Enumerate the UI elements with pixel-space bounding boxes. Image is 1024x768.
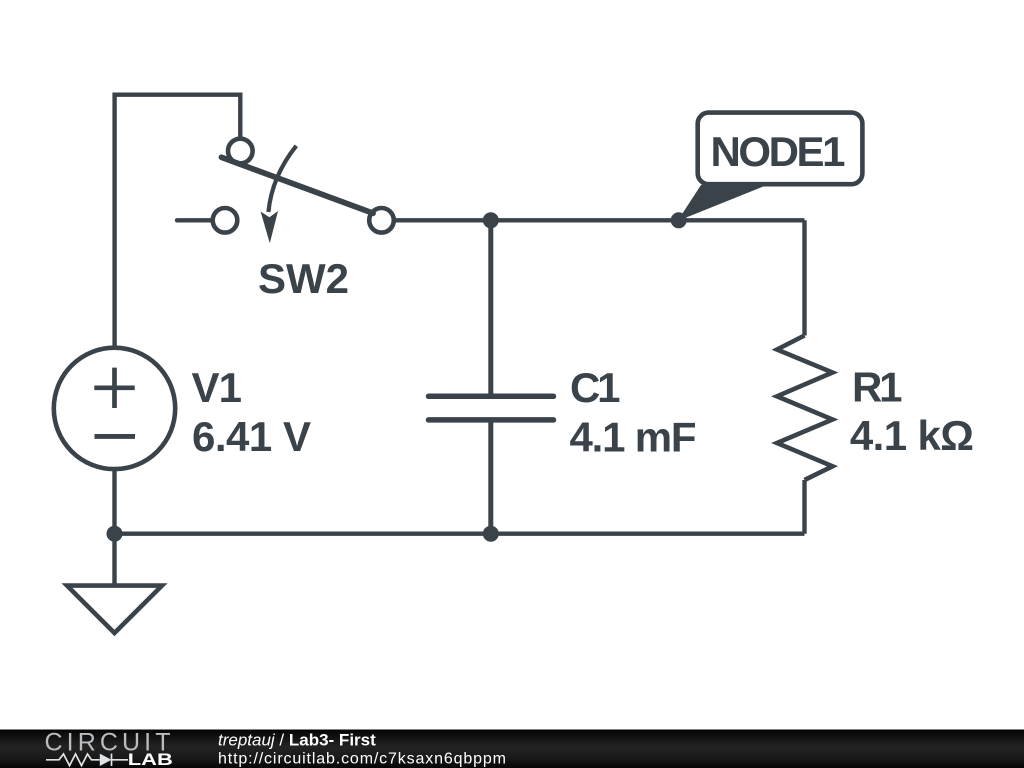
switch SW2 pole terminal bbox=[213, 208, 238, 233]
switch SW2 right terminal bbox=[369, 208, 394, 233]
svg-text:4.1 kΩ: 4.1 kΩ bbox=[850, 412, 974, 459]
svg-text:http://circuitlab.com/c7ksaxn6: http://circuitlab.com/c7ksaxn6qbppm bbox=[218, 750, 506, 767]
switch SW2 blade bbox=[222, 157, 374, 213]
svg-text:treptauj / Lab3- First: treptauj / Lab3- First bbox=[218, 730, 376, 749]
svg-text:C1: C1 bbox=[570, 364, 621, 411]
svg-text:4.1 mF: 4.1 mF bbox=[570, 413, 697, 460]
svg-text:V1: V1 bbox=[192, 364, 243, 411]
NODE1 callout box bbox=[698, 113, 863, 185]
capacitor C1 bottom plate bbox=[429, 417, 554, 423]
junction dot at C1 bottom bbox=[483, 526, 499, 542]
voltage source V1 circle bbox=[54, 348, 175, 469]
junction dot at C1 top bbox=[483, 212, 499, 228]
wire bottom horizontal bbox=[115, 532, 805, 536]
capacitor C1 bottom lead bbox=[488, 421, 493, 534]
capacitor C1 top lead bbox=[488, 220, 493, 394]
footer bar bbox=[0, 730, 1024, 768]
svg-text:NODE1: NODE1 bbox=[711, 128, 846, 175]
CircuitLab logo resistor-diode squiggle bbox=[46, 754, 128, 766]
svg-text:R1: R1 bbox=[852, 364, 903, 411]
svg-text:LAB: LAB bbox=[128, 751, 173, 768]
switch SW2 arrow head bbox=[261, 211, 278, 243]
NODE1 callout tail bbox=[678, 185, 768, 221]
resistor R1 zigzag body bbox=[777, 336, 833, 481]
wire top horizontal bbox=[394, 218, 805, 222]
V1 minus sign bbox=[95, 434, 136, 439]
switch SW2 actuation arc bbox=[268, 146, 296, 212]
svg-text:SW2: SW2 bbox=[258, 255, 349, 302]
resistor R1 top lead bbox=[802, 220, 806, 335]
ground symbol bbox=[67, 586, 162, 633]
V1 bottom lead bbox=[112, 469, 116, 534]
capacitor C1 top plate bbox=[429, 394, 554, 400]
ground lead bbox=[112, 534, 116, 586]
junction dot bottom left bbox=[107, 526, 123, 542]
V1 plus sign bbox=[94, 368, 134, 408]
wire stub left of SW2 pole bbox=[177, 218, 213, 222]
svg-text:6.41 V: 6.41 V bbox=[192, 413, 311, 460]
switch SW2 top terminal bbox=[228, 139, 253, 164]
node NODE1 junction dot bbox=[671, 212, 687, 228]
wire top-left loop bbox=[115, 95, 241, 348]
resistor R1 bottom lead bbox=[802, 480, 806, 534]
